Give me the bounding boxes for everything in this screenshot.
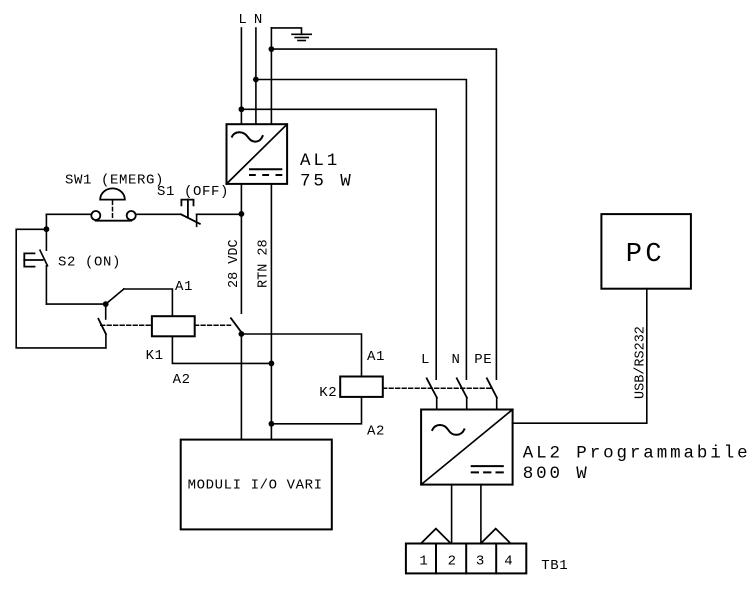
- svg-text:N: N: [254, 12, 263, 28]
- svg-text:RTN 28: RTN 28: [257, 239, 272, 288]
- svg-text:A2: A2: [173, 372, 191, 388]
- svg-text:800 W: 800 W: [523, 464, 590, 484]
- svg-text:2: 2: [448, 553, 457, 569]
- svg-text:AL1: AL1: [300, 151, 340, 171]
- svg-text:USB/RS232: USB/RS232: [633, 326, 648, 399]
- svg-text:PE: PE: [474, 352, 492, 368]
- svg-text:75 W: 75 W: [300, 172, 354, 192]
- svg-text:N: N: [452, 352, 461, 368]
- svg-text:A1: A1: [175, 279, 193, 295]
- svg-text:L: L: [238, 12, 247, 28]
- svg-text:L: L: [421, 352, 430, 368]
- svg-text:4: 4: [504, 553, 513, 569]
- svg-text:S2 (ON): S2 (ON): [58, 255, 121, 271]
- svg-text:1: 1: [419, 553, 428, 569]
- svg-text:3: 3: [476, 553, 485, 569]
- svg-text:K2: K2: [319, 385, 337, 401]
- svg-text:A2: A2: [367, 424, 385, 440]
- svg-text:A1: A1: [367, 349, 385, 365]
- svg-text:K1: K1: [146, 348, 164, 364]
- svg-text:PC: PC: [626, 240, 665, 270]
- svg-text:SW1 (EMERG): SW1 (EMERG): [65, 173, 164, 189]
- svg-text:AL2 Programmabile: AL2 Programmabile: [523, 444, 751, 464]
- svg-text:TB1: TB1: [541, 558, 568, 574]
- svg-text:S1 (OFF): S1 (OFF): [157, 184, 229, 200]
- svg-text:28 VDC: 28 VDC: [227, 239, 242, 288]
- svg-text:MODULI I/O VARI: MODULI I/O VARI: [188, 478, 323, 494]
